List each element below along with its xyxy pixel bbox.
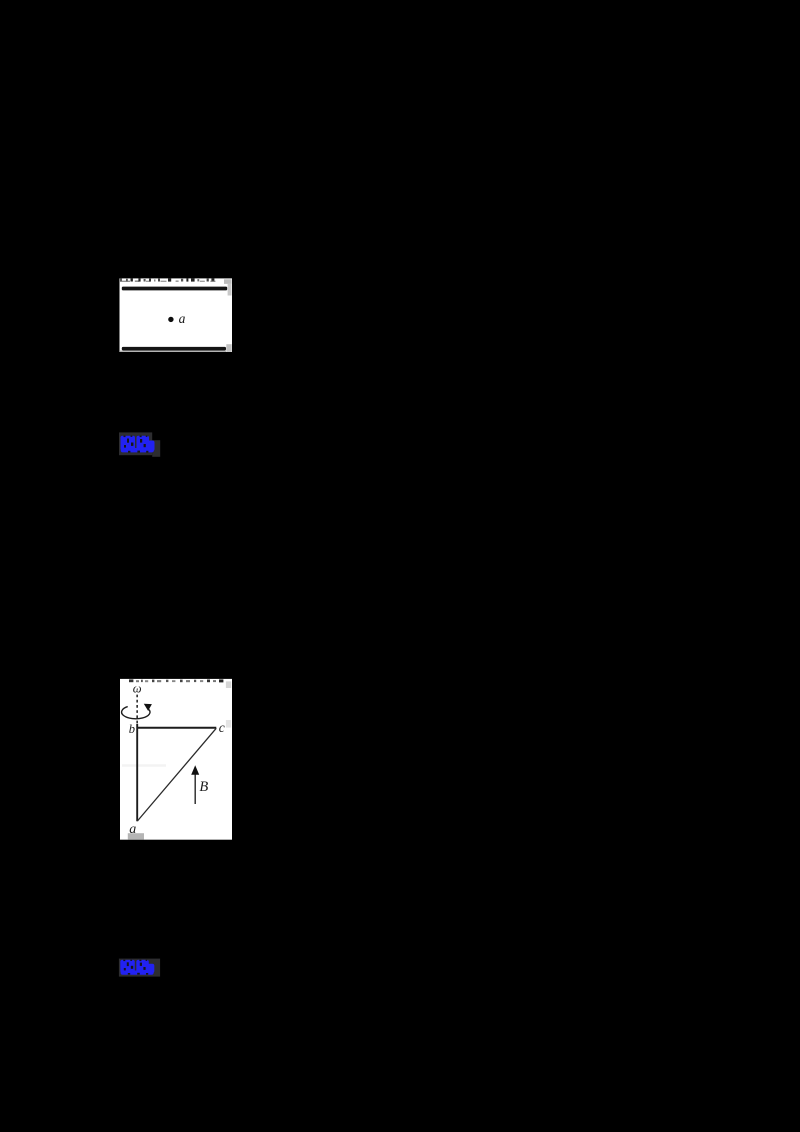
- figure 1: parallel-plate capacitor image background: [120, 278, 233, 352]
- figure 1: gray strip under bottom plate: [120, 351, 226, 353]
- svg-text:a: a: [179, 311, 186, 326]
- figure 2: gray scan square below a: [128, 833, 144, 839]
- figure 1: bottom capacitor plate: [122, 347, 226, 351]
- figure 2: dashed rotation axis: [136, 695, 138, 724]
- figure 1: gray scan square bottom-right: [226, 344, 231, 352]
- answer link 2: blue glyph blob: [120, 960, 154, 975]
- svg-text:b: b: [129, 722, 135, 736]
- svg-text:c: c: [219, 720, 225, 735]
- figure 2: triangle side ab (vertical): [136, 724, 138, 821]
- answer link 1: dark gaps inside glyphs: [124, 436, 149, 453]
- figure 1: gray scan block top-right: [224, 279, 232, 284]
- svg-text:B: B: [199, 779, 208, 795]
- figure 2: faint scan band left-middle: [122, 764, 166, 767]
- answer link 1: gray highlight patch: [119, 432, 152, 455]
- answer link 2: dark gaps inside glyphs: [123, 960, 148, 975]
- figure 1: top capacitor plate: [122, 287, 227, 291]
- figure 2: B field arrowhead: [191, 765, 199, 774]
- figure 2: rotating-frame image background: [120, 679, 232, 840]
- answer link 1: gray highlight patch extension: [152, 440, 160, 457]
- answer link 2: gray highlight patch: [119, 959, 160, 977]
- figure 2: triangle side ac (hypotenuse): [137, 728, 216, 821]
- figure 1: charged point dot: [168, 317, 173, 322]
- answer link 1: blue glyph blob: [121, 436, 155, 453]
- figure 2: rotation arrowhead: [144, 704, 152, 711]
- figure 2: rotation arc: [122, 707, 150, 719]
- figure 2: triangle side bc (horizontal): [137, 727, 216, 729]
- figure 2: gray scan block top-right: [226, 681, 231, 688]
- figure 1: cropped text remnants along top edge: [120, 278, 215, 282]
- figure 2: cropped text remnants along top edge: [129, 679, 223, 682]
- figure 1: gray scan strip right edge: [228, 284, 232, 296]
- svg-text:ω: ω: [133, 682, 142, 696]
- figure 2: gray scan square near c: [226, 720, 231, 728]
- figure 2: B field arrow stem: [194, 774, 196, 805]
